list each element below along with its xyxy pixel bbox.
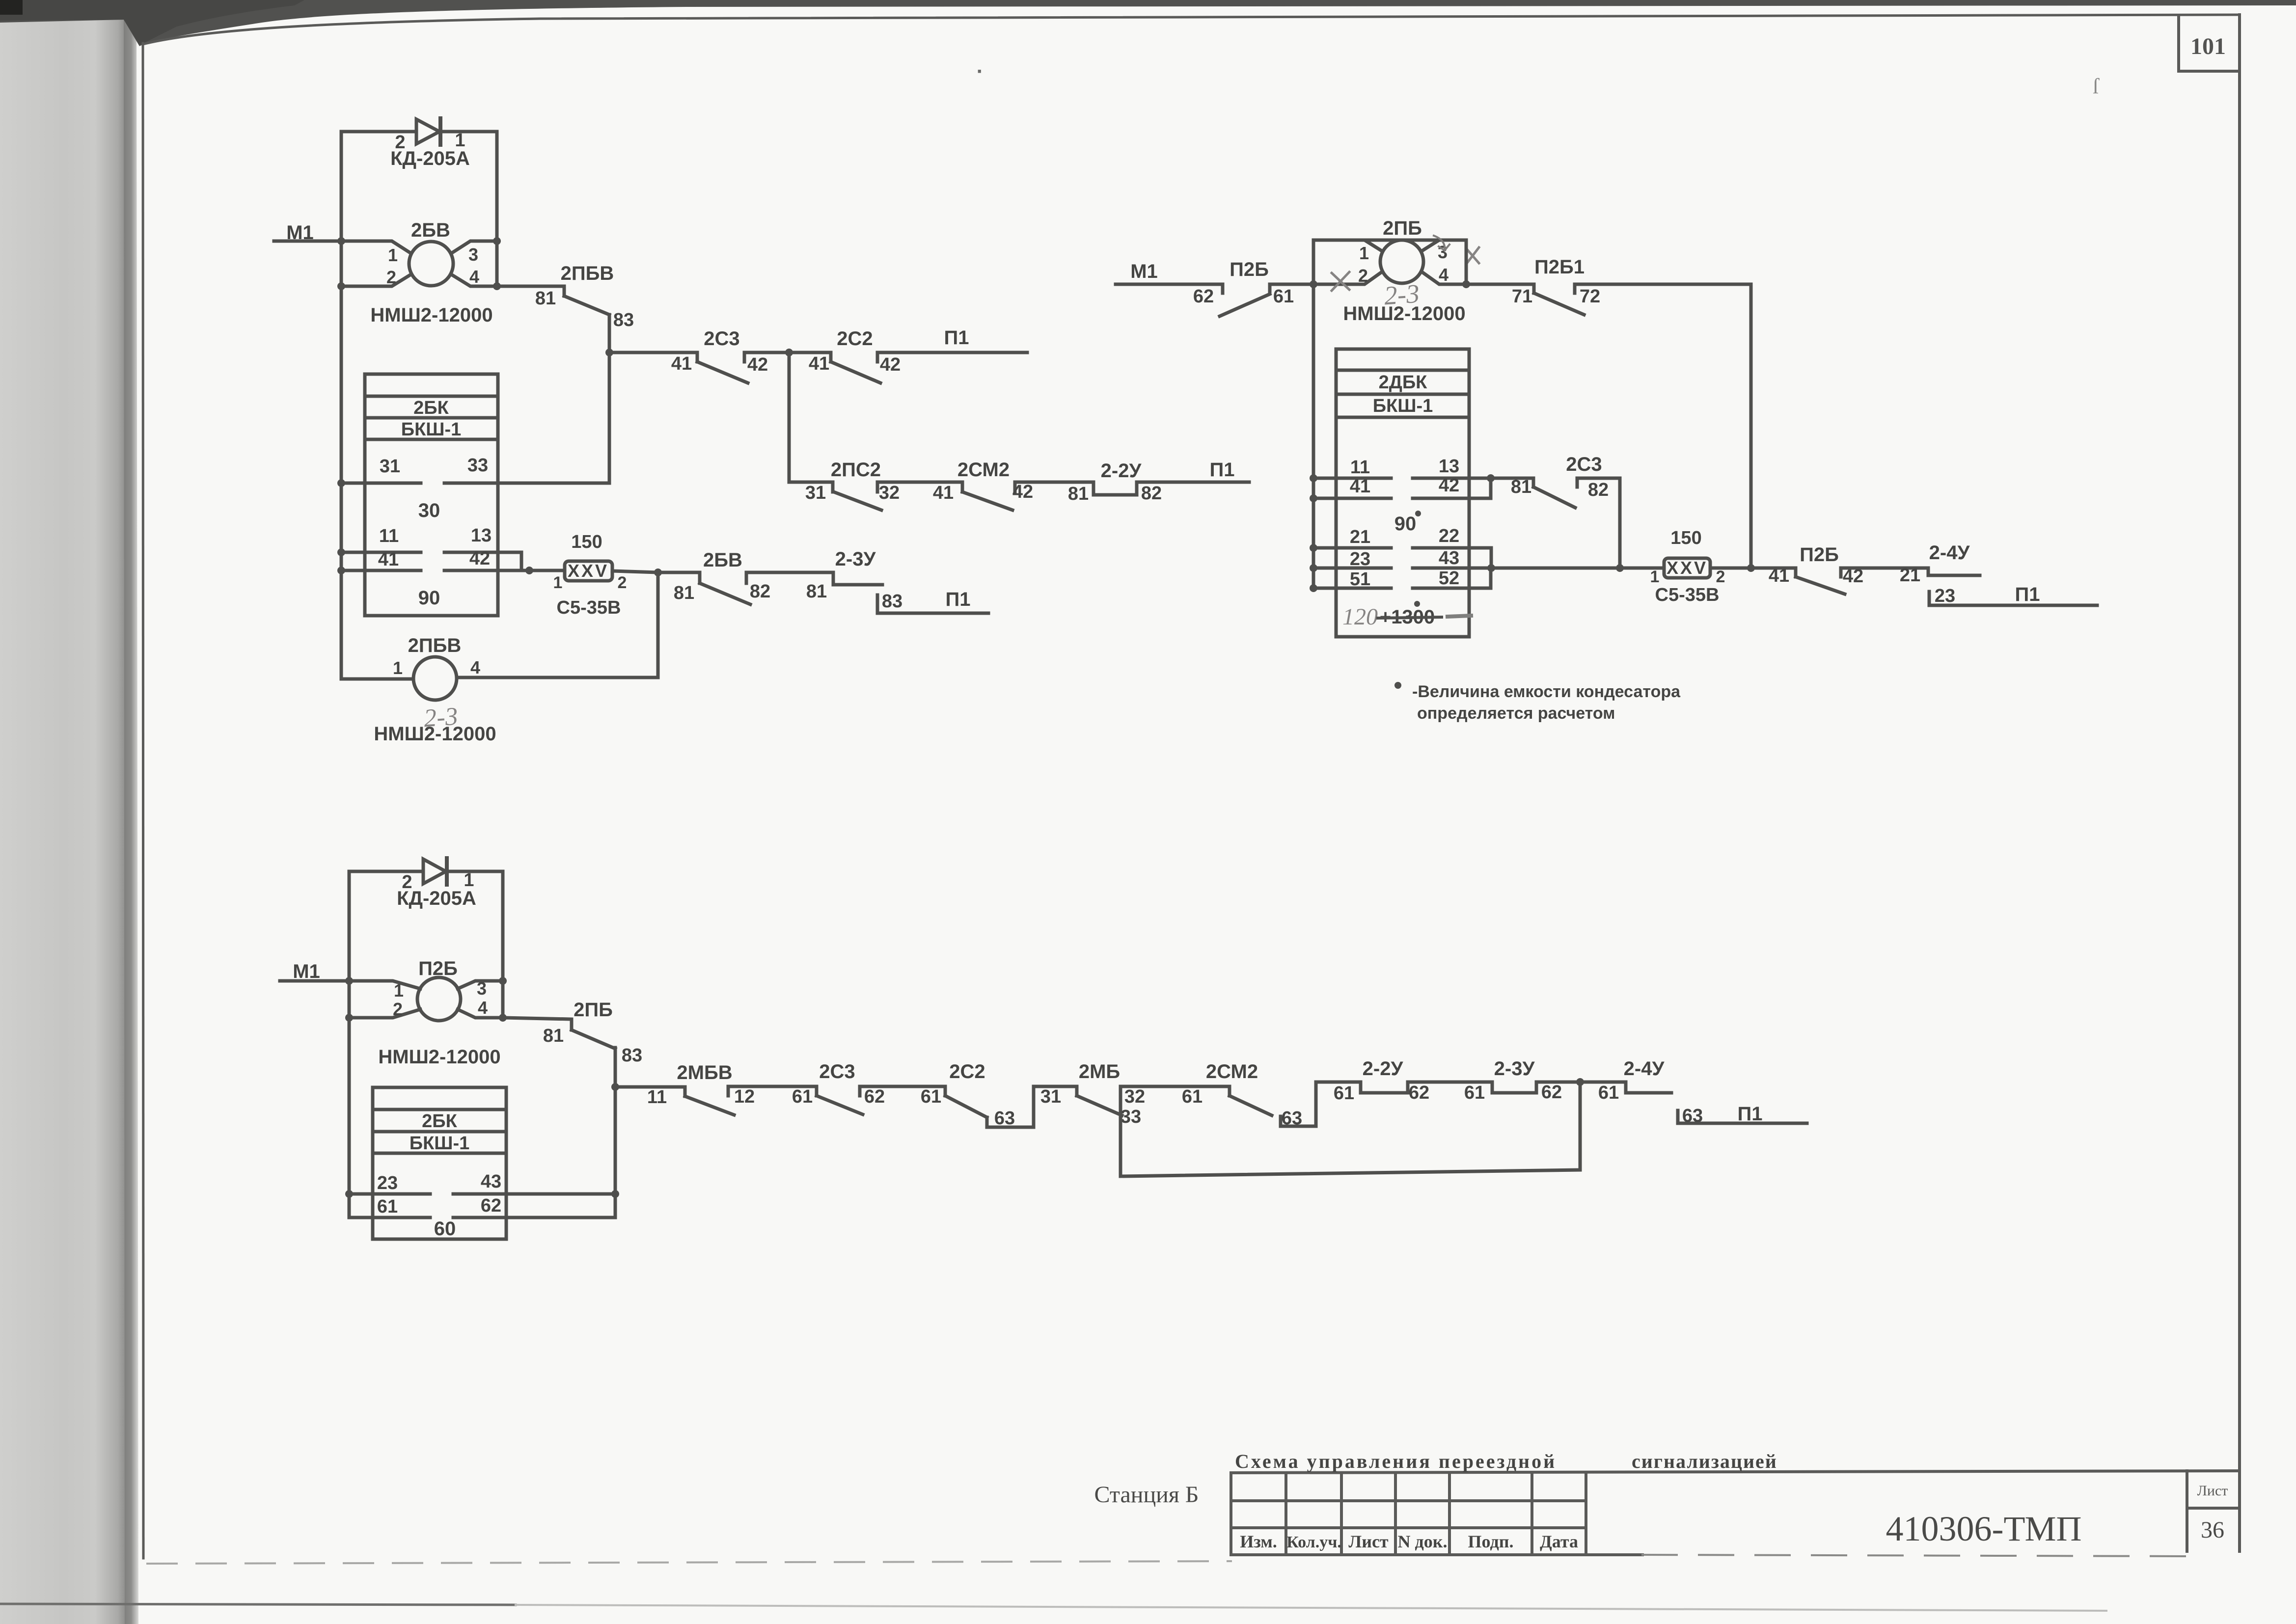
wire 33 bypass down and along [1121,1082,1580,1176]
svg-text:БКШ-1: БКШ-1 [410,1133,469,1154]
svg-text:61: 61 [377,1196,398,1217]
title block bottom border [1231,1553,1642,1556]
wire 83 stub to P1 [877,595,988,613]
drawing frame right edge [2238,15,2241,1551]
title block table row lines [1231,1501,1586,1528]
svg-text:2: 2 [618,573,627,592]
svg-text:32: 32 [879,483,900,503]
svg-text:83: 83 [613,310,634,330]
svg-text:2БВ: 2БВ [703,549,742,571]
svg-text:21: 21 [1350,527,1370,547]
svg-text:72: 72 [1580,286,1600,307]
handwritten strike marks on pins [1332,272,1349,291]
wire capacitor to node [1710,568,1796,577]
title block table verticals [1230,1473,1232,1555]
svg-text:13: 13 [1439,456,1459,477]
svg-text:2: 2 [393,999,403,1019]
svg-text:С5-35В: С5-35В [557,597,621,618]
svg-text:41: 41 [933,483,954,503]
svg-text:М1: М1 [1130,261,1158,282]
contact 2-3U 61-62 (dip) [1492,1082,1626,1093]
wire top of diode loop [341,130,497,134]
contact 2PS2 31-32 [789,482,833,492]
contact block 2BK BKSh-1 outline (circuit 3) [373,1087,506,1239]
block pin row 41-42 [1313,478,1491,498]
svg-text:81: 81 [1511,477,1531,497]
svg-text:2МБВ: 2МБВ [677,1062,732,1083]
svg-text:2-4У: 2-4У [1929,542,1970,564]
footnote asterisk note [1394,682,1401,689]
wire M1 feed (circuit 3) [280,979,349,983]
relay coil 2PBV (slow release) [413,657,457,700]
sheet number box 101 (top right) [2179,15,2238,71]
sheet box Лист / 36 [2187,1471,2240,1551]
contact 2SM2 41-42 [961,482,964,492]
svg-text:60: 60 [434,1218,456,1240]
svg-text:62: 62 [1193,286,1214,307]
wire left vertical bus of 2PB [1312,240,1315,588]
svg-text:81: 81 [535,288,556,309]
svg-text:63: 63 [1282,1108,1302,1129]
svg-text:63: 63 [994,1108,1015,1129]
svg-text:Станция Б: Станция Б [1094,1482,1199,1508]
svg-text:Подп.: Подп. [1468,1532,1514,1551]
svg-text:XXV: XXV [1667,558,1708,578]
svg-text:41: 41 [809,353,829,374]
svg-text:2-2У: 2-2У [1363,1058,1404,1080]
svg-text:П1: П1 [1738,1103,1763,1125]
svg-text:43: 43 [1439,548,1459,568]
svg-text:23: 23 [377,1173,398,1193]
svg-text:81: 81 [806,581,827,602]
svg-text:83: 83 [882,591,902,612]
svg-text:НМШ2-12000: НМШ2-12000 [1343,303,1465,325]
svg-text:62: 62 [1409,1083,1429,1103]
contact 2-2U 81-82 (dip) [1093,482,1249,495]
svg-text:НМШ2-12000: НМШ2-12000 [374,723,496,745]
svg-text:150: 150 [571,532,602,552]
svg-text:1: 1 [393,658,403,678]
block pin row 23-43 (to capacitor) [1313,567,1664,570]
relay coil 2PB [1380,240,1423,283]
svg-text:23: 23 [1935,586,1955,606]
svg-text:2: 2 [386,267,396,287]
svg-text:2: 2 [1358,266,1368,286]
svg-text:61: 61 [1182,1086,1203,1107]
svg-text:71: 71 [1512,286,1532,307]
svg-text:42: 42 [1439,475,1459,496]
svg-text:2ПБ: 2ПБ [1383,217,1422,239]
block pin row 23-43 (circuit 3) [349,1192,614,1196]
wire M1 feed (circuit 2) [1116,284,1223,293]
wire capacitor to node [612,571,658,572]
block 2DBK internal separators [1336,370,1469,417]
dark scanner band along top [0,0,2296,46]
wire 82 down to capacitor row [1618,478,1622,568]
svg-text:31: 31 [380,456,400,477]
svg-text:22: 22 [1439,526,1459,546]
svg-text:П1: П1 [2015,584,2040,605]
svg-text:12: 12 [734,1086,755,1107]
contact 2S3 41-42 [609,352,697,362]
block pin row 31-33 [341,482,609,485]
wire 83 vertical down to chain and block [614,1048,617,1218]
svg-text:62: 62 [864,1086,885,1107]
svg-text:3: 3 [1438,242,1448,262]
svg-text:62: 62 [1541,1082,1562,1103]
svg-text:Изм.: Изм. [1240,1532,1277,1551]
svg-text:410306-ТМП: 410306-ТМП [1886,1509,2081,1548]
svg-text:83: 83 [622,1045,642,1066]
contact 2-4U 21 (open step) [1928,568,1980,575]
svg-text:41: 41 [1350,476,1370,497]
svg-text:101: 101 [2190,33,2226,59]
svg-text:42: 42 [469,548,490,569]
capacitor 150 S5-35V (circuit 2) [1664,558,1710,578]
capacitor 150 S5-35V [565,561,612,581]
svg-text:Дата: Дата [1540,1532,1578,1551]
contact 2-4U 61 (open step) [1626,1082,1671,1093]
svg-text:определяется расчетом: определяется расчетом [1417,704,1615,723]
svg-text:2СМ2: 2СМ2 [957,459,1010,481]
contact 2BV 81-82 [658,572,700,583]
bottom scan edge line [0,1604,516,1605]
drawing frame top edge [143,15,2240,44]
diode KD-205A [416,119,439,144]
svg-text:42: 42 [1012,482,1033,502]
svg-text:33: 33 [1121,1107,1141,1127]
svg-text:-Величина емкости кондесатора: -Величина емкости кондесатора [1412,682,1681,701]
svg-text:13: 13 [471,525,492,546]
title block top border [1231,1471,2240,1473]
svg-text:41: 41 [1769,566,1789,586]
svg-text:2-2У: 2-2У [1101,460,1142,482]
wire 23 stub to P1 (circuit 2) [1929,592,2097,605]
contact 2MBV 11-12 [615,1087,685,1096]
svg-text:81: 81 [543,1026,564,1046]
svg-text:Схема управления переездной: Схема управления переездной [1235,1450,1557,1472]
wire top of diode loop (circuit 3) [349,870,503,873]
contact 2PB 81-83 [503,1018,572,1030]
svg-text:61: 61 [792,1086,813,1107]
svg-text:НМШ2-12000: НМШ2-12000 [378,1046,500,1068]
svg-text:2ПБ: 2ПБ [574,999,613,1021]
svg-text:120: 120 [1342,604,1378,630]
svg-text:Кол.уч.: Кол.уч. [1286,1533,1341,1551]
svg-text:43: 43 [481,1171,501,1192]
wire left vertical bus of 2BV loop [340,132,343,679]
svg-text:Лист: Лист [1348,1532,1389,1551]
svg-text:2С3: 2С3 [704,328,739,350]
svg-text:БКШ-1: БКШ-1 [401,419,461,440]
svg-text:2С2: 2С2 [837,328,873,350]
svg-text:61: 61 [1334,1083,1354,1104]
relay coil 2BV [409,242,453,286]
svg-text:32: 32 [1124,1086,1145,1107]
block pin row 21-22 [1313,548,1491,568]
svg-text:1: 1 [388,245,398,265]
svg-text:2БК: 2БК [422,1111,457,1132]
svg-text:81: 81 [1068,484,1089,504]
svg-text:4: 4 [469,267,479,287]
svg-text:82: 82 [1141,483,1162,504]
contact block 2BK BKSh-1 outline [365,374,498,616]
svg-text:81: 81 [674,583,694,603]
svg-text:90: 90 [1394,513,1417,535]
svg-text:2С3: 2С3 [1566,454,1602,475]
svg-text:62: 62 [481,1195,501,1216]
svg-text:42: 42 [1843,566,1863,587]
svg-text:2БВ: 2БВ [411,219,450,241]
svg-text:21: 21 [1900,565,1920,586]
svg-text:1: 1 [394,980,404,1001]
svg-text:2-3У: 2-3У [1494,1058,1535,1080]
svg-text:36: 36 [2201,1517,2224,1543]
svg-text:П1: П1 [1210,459,1235,481]
svg-text:С5-35В: С5-35В [1655,585,1720,605]
svg-text:2: 2 [1716,568,1725,586]
wire vertical 2S3 feed to row 2 [788,352,791,482]
svg-text:61: 61 [921,1086,941,1107]
svg-text:ſ: ſ [2093,74,2100,98]
svg-text:П2Б: П2Б [1800,544,1839,566]
svg-text:1: 1 [1359,243,1369,263]
svg-text:БКШ-1: БКШ-1 [1373,396,1433,416]
svg-text:41: 41 [671,353,692,374]
svg-text:КД-205А: КД-205А [397,888,476,909]
svg-text:2СМ2: 2СМ2 [1206,1061,1258,1083]
svg-text:сигнализацией: сигнализацией [1632,1450,1777,1472]
svg-text:2БК: 2БК [413,398,449,418]
svg-text:КД-205А: КД-205А [390,148,470,169]
svg-text:НМШ2-12000: НМШ2-12000 [370,304,492,326]
svg-text:63: 63 [1682,1106,1703,1126]
contact 2-3U 81 (open step) [833,572,882,585]
contact 2PBV 81-83 [497,286,564,296]
wire block to capacitor [529,569,565,572]
wire 63 stub to P1 (circuit 3) [1678,1110,1807,1123]
contact 2S2 61-63 (transfer down) [944,1086,947,1096]
relay coil P2B [417,977,461,1021]
block pin row 11-13 [341,552,521,570]
svg-text:30: 30 [418,500,440,521]
svg-text:3: 3 [477,978,487,999]
svg-text:82: 82 [750,581,770,602]
wire right feed down to capacitor row [1749,284,1753,568]
svg-text:31: 31 [805,483,826,503]
svg-text:4: 4 [1439,265,1449,285]
wire right vertical of 2PB loop [1465,240,1468,284]
svg-text:2ПБВ: 2ПБВ [408,635,462,656]
svg-text:61: 61 [1598,1083,1619,1103]
block pin row 11-13 [1313,477,1491,480]
svg-text:1: 1 [1650,568,1660,586]
svg-text:М1: М1 [293,961,320,982]
svg-text:51: 51 [1350,569,1370,590]
svg-text:42: 42 [747,354,768,375]
node junction dots around 2BV [493,237,501,245]
block internal separators (circuit 3) [373,1110,506,1153]
svg-text:2-3У: 2-3У [835,548,876,570]
svg-text:90: 90 [418,587,440,609]
svg-text:4: 4 [478,998,488,1018]
svg-text:2С2: 2С2 [949,1061,985,1083]
svg-text:М1: М1 [286,222,314,244]
block pin row 41-42 [341,569,529,572]
contact 2S3 81-82 [1491,478,1533,487]
block pin row 61-62 (circuit 3) [349,1216,614,1219]
svg-text:П2Б: П2Б [1230,259,1269,280]
svg-text:1: 1 [553,573,563,592]
contact 2-2U 61-62 (dip) [1361,1082,1492,1093]
contact P2B1 71-72 [1466,284,1534,293]
svg-text:2МБ: 2МБ [1079,1061,1120,1083]
svg-text:61: 61 [1464,1083,1485,1103]
svg-text:П1: П1 [946,589,971,610]
frame bottom faint dashed line (left part) [147,1561,1231,1564]
svg-text:4: 4 [470,657,480,677]
svg-text:42: 42 [880,354,901,375]
block 2BK internal separators [365,396,498,439]
contact P2B 62-61 [1220,294,1270,316]
contact 2S3 61-62 (chain) [815,1086,819,1096]
wire left vertical bus (circuit 3) [348,871,351,1218]
wire right vertical of diode loop [495,132,499,286]
svg-text:2ДБК: 2ДБК [1379,372,1428,393]
svg-text:2ПБВ: 2ПБВ [561,263,614,284]
svg-text:52: 52 [1439,568,1459,589]
svg-text:31: 31 [1040,1086,1061,1107]
svg-text:2-4У: 2-4У [1624,1058,1665,1080]
contact 2S2 41-42 [789,352,831,362]
svg-text:61: 61 [1273,286,1294,307]
svg-text:2С3: 2С3 [819,1061,855,1083]
contact 2SM2 61-63 (transfer down) [1228,1086,1231,1096]
wire M1 feed (circuit 1) [274,240,341,243]
svg-text:П2Б1: П2Б1 [1534,256,1585,278]
svg-text:11: 11 [379,526,399,546]
svg-text:·: · [977,59,984,83]
drawing frame left edge [143,43,143,1558]
contact 2MB 31-32/33 [1075,1086,1079,1096]
svg-text:150: 150 [1670,528,1701,548]
diode KD-205A (circuit 3) [423,859,446,884]
svg-text:11: 11 [647,1087,667,1108]
svg-text:П2Б: П2Б [418,958,458,979]
svg-text:41: 41 [378,549,399,570]
contact block 2DBK BKSh-1 outline [1336,349,1469,637]
wire top of 2PB loop [1313,239,1466,242]
svg-text:Лист: Лист [2197,1483,2228,1499]
svg-text:82: 82 [1588,480,1609,500]
wire node down to 2PBV coil row [458,572,658,677]
svg-text:11: 11 [1350,457,1370,478]
svg-text:П1: П1 [944,327,969,349]
wire right vertical of loop (circuit 3) [501,871,505,1018]
svg-text:2ПС2: 2ПС2 [831,459,881,481]
svg-text:N док.: N док. [1398,1532,1448,1551]
svg-text:33: 33 [467,455,488,476]
block pin row 51-52 [1313,568,1491,588]
svg-text:3: 3 [468,244,478,265]
svg-text:XXV: XXV [568,561,609,581]
svg-text:23: 23 [1350,549,1370,569]
contact P2B 41-42 [1796,577,1845,594]
page gap shadow [124,18,138,1624]
